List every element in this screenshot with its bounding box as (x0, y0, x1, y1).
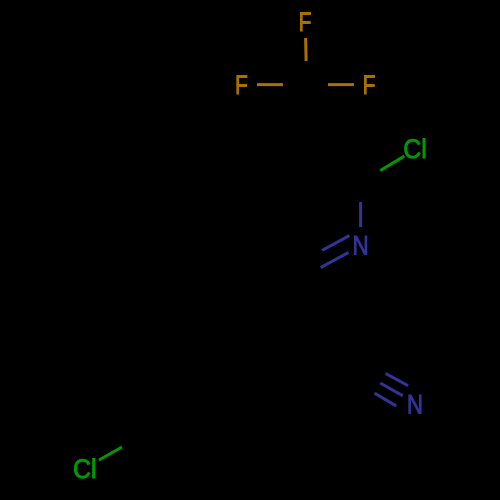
bond C2-Cl (Cl half) (380, 156, 404, 170)
svg-text:Cl: Cl (403, 135, 426, 164)
double bond N1=C6 lower line (N half) (321, 252, 349, 267)
svg-text:F: F (363, 70, 376, 100)
bond C-F (vertical, F half) (304, 38, 308, 61)
svg-text:F: F (235, 70, 248, 100)
svg-text:N: N (407, 391, 423, 420)
bond C-F (horizontal left, F half) (257, 83, 283, 86)
bond N1-C2 (vertical, N half) (359, 202, 362, 227)
svg-text:Cl: Cl (73, 455, 96, 484)
svg-text:F: F (299, 7, 312, 37)
svg-text:N: N (353, 232, 369, 261)
bond C-Cl (phenyl, Cl half) (99, 447, 122, 460)
double bond N1=C6 upper line (N half) (322, 236, 349, 251)
bond C-F (horizontal right, F half) (328, 83, 354, 86)
triple bond C#N middle line (N half) (380, 383, 403, 396)
triple bond C#N bottom line (N half) (375, 393, 397, 406)
triple bond C#N top line (N half) (386, 373, 408, 385)
